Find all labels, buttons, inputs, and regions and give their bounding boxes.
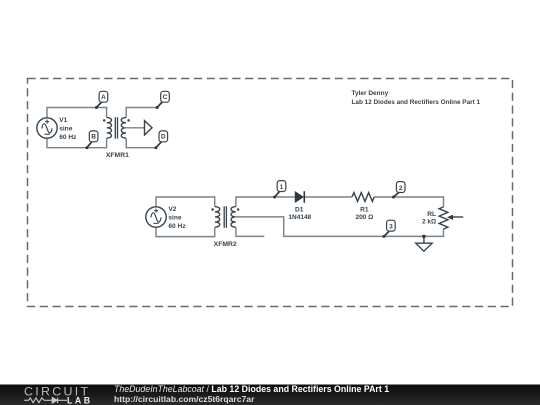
voltage source V1 xyxy=(37,118,57,138)
node 2 xyxy=(392,182,405,199)
wire XFMR2 secondary top to D1 xyxy=(236,197,295,207)
svg-text:2 kΩ: 2 kΩ xyxy=(422,219,436,226)
wire D1 to R1 xyxy=(304,196,352,198)
diode D1 xyxy=(295,191,304,203)
svg-text:1N4148: 1N4148 xyxy=(288,214,311,221)
logo circuit glyph xyxy=(24,398,67,404)
node A xyxy=(95,91,108,109)
svg-text:60 Hz: 60 Hz xyxy=(168,223,186,230)
wire XFMR1 secondary bottom open end xyxy=(126,138,156,148)
XFMR2 primary phase dot xyxy=(211,208,214,211)
svg-text:V2: V2 xyxy=(168,206,176,213)
schematic sheet dashed border xyxy=(28,79,513,307)
svg-text:A: A xyxy=(101,94,106,101)
wire XFMR1 secondary top open end xyxy=(126,108,157,118)
transformer XFMR2 xyxy=(215,206,236,227)
RL wiper arrow xyxy=(447,215,463,220)
resistor R1 xyxy=(352,193,374,202)
wire V2 bottom to XFMR2 primary bottom xyxy=(156,227,215,236)
svg-text:2: 2 xyxy=(399,185,403,192)
ground xyxy=(416,236,432,251)
XFMR1 secondary phase dot xyxy=(127,119,130,122)
svg-text:LAB: LAB xyxy=(67,395,93,405)
svg-text:V1: V1 xyxy=(59,117,67,124)
node 3 xyxy=(382,220,395,238)
potentiometer RL xyxy=(439,207,448,229)
svg-text:Lab 12 Diodes and Rectifiers O: Lab 12 Diodes and Rectifiers Online Part… xyxy=(352,99,481,106)
svg-text:D: D xyxy=(161,134,166,141)
svg-text:RL: RL xyxy=(427,211,436,218)
node C xyxy=(156,91,170,109)
junction dot at ground xyxy=(422,235,426,239)
transformer XFMR1 xyxy=(107,117,126,138)
svg-text:60 Hz: 60 Hz xyxy=(59,134,77,141)
svg-text:B: B xyxy=(91,134,96,141)
svg-text:sine: sine xyxy=(59,126,73,133)
XFMR1 primary phase dot xyxy=(103,119,106,122)
svg-text:R1: R1 xyxy=(360,207,369,214)
svg-text:200 Ω: 200 Ω xyxy=(355,214,373,221)
wire V1 bottom to XFMR1 primary bottom xyxy=(47,138,107,148)
node 1 xyxy=(273,181,286,199)
wire V2 top to XFMR2 primary xyxy=(156,197,215,207)
wire R1 to RL top xyxy=(374,197,443,207)
wire V1 top to XFMR1 primary xyxy=(47,108,107,118)
svg-text:C: C xyxy=(163,94,168,101)
svg-text:Tyler Denny: Tyler Denny xyxy=(352,90,389,97)
voltage source V2 xyxy=(146,207,166,227)
XFMR2 secondary phase dot xyxy=(237,208,240,211)
svg-text:3: 3 xyxy=(389,224,393,231)
svg-text:sine: sine xyxy=(168,215,182,222)
svg-text:XFMR2: XFMR2 xyxy=(214,241,237,248)
svg-text:D1: D1 xyxy=(295,207,304,214)
svg-text:http://circuitlab.com/cz5t6rqa: http://circuitlab.com/cz5t6rqarc7ar xyxy=(114,394,255,404)
node D xyxy=(154,131,167,149)
svg-text:XFMR1: XFMR1 xyxy=(106,152,129,159)
wire XFMR2 secondary bottom stub xyxy=(236,227,264,236)
svg-text:1: 1 xyxy=(280,184,284,191)
svg-text:TheDudeInTheLabcoat / Lab 12 D: TheDudeInTheLabcoat / Lab 12 Diodes and … xyxy=(114,384,389,394)
wire RL bottom to tap rail xyxy=(236,217,444,237)
node B xyxy=(85,131,98,149)
XFMR1 center tap wire and arrow xyxy=(124,127,145,129)
